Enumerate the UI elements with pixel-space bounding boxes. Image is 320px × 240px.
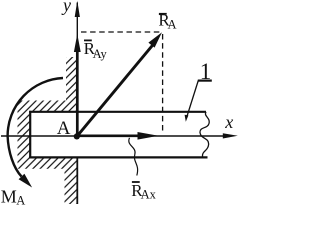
beam break (zigzag) xyxy=(200,112,209,157)
node A dot xyxy=(74,133,80,139)
svg-text:Ay: Ay xyxy=(93,47,108,61)
svg-text:M: M xyxy=(1,186,17,206)
label R_Ay xyxy=(84,39,108,61)
y axis xyxy=(76,3,78,137)
svg-text:Ax: Ax xyxy=(141,187,157,201)
y axis arrowhead xyxy=(75,1,80,17)
moment M_A arc xyxy=(8,78,63,177)
reaction R_Ay arrow xyxy=(76,51,79,136)
svg-text:A: A xyxy=(168,18,177,32)
wall face line (above beam) xyxy=(76,57,78,113)
beam 1: top edge xyxy=(29,111,206,113)
svg-text:A: A xyxy=(57,118,71,139)
label R_A xyxy=(158,11,176,32)
label M_A xyxy=(1,186,25,207)
wall face line (below beam) xyxy=(76,157,78,204)
x axis arrowhead xyxy=(223,133,238,138)
reaction R_A arrow xyxy=(77,45,153,136)
beam callout label 1 xyxy=(185,59,212,122)
beam 1: left edge xyxy=(29,111,31,158)
label R_Ax with squiggle leader xyxy=(129,138,157,202)
reaction R_Ax arrow xyxy=(77,134,140,137)
svg-text:A: A xyxy=(16,193,25,207)
beam 1: bottom edge xyxy=(29,156,207,158)
M_A arrowhead xyxy=(19,174,32,188)
svg-text:y: y xyxy=(61,0,71,15)
svg-text:x: x xyxy=(224,112,233,132)
wall hatching (C-shaped band around embedded beam end) xyxy=(18,57,79,204)
dashed projection lines xyxy=(81,31,161,33)
x axis (centerline through beam) xyxy=(1,135,230,137)
